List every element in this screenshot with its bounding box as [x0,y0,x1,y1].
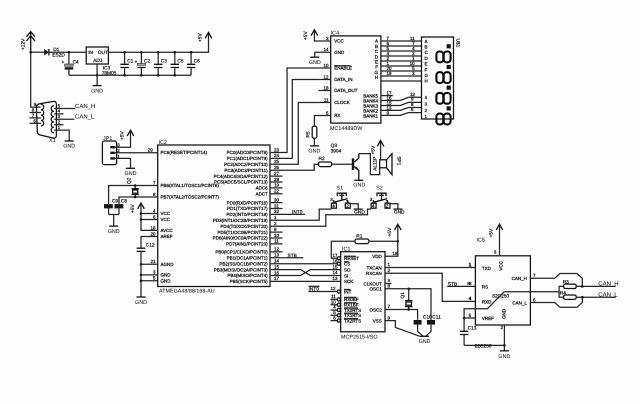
svg-text:RX: RX [334,113,340,118]
svg-text:GND: GND [63,144,75,150]
IC1 left pin names [344,256,361,323]
svg-text:R3: R3 [563,279,569,285]
svg-text:PD0(RXD/PCINT16): PD0(RXD/PCINT16) [227,200,269,205]
svg-text:+5V: +5V [387,227,393,236]
svg-text:13: 13 [332,276,338,281]
svg-text:CAN_H: CAN_H [598,281,618,288]
IC2 right pin names [213,150,269,284]
svg-text:OSC2: OSC2 [370,307,383,312]
capacitor C2 (polarized) [135,52,151,75]
svg-text:18: 18 [323,85,329,90]
IC1 pin bubbles [337,257,340,323]
wire PB7 XTAL2 [119,197,158,204]
junction crystal bottom [134,196,137,199]
svg-text:12: 12 [330,286,336,291]
svg-text:ATMEGA48/88/168-AU: ATMEGA48/88/168-AU [159,289,215,295]
X1 left pin arcs [41,104,44,126]
display digit group 2 [436,65,450,83]
svg-text:PC5(ADC5/SCL/PCINT13): PC5(ADC5/SCL/PCINT13) [214,180,268,185]
svg-text:10: 10 [274,233,280,238]
wire VREF to R3 R4 midpoint [464,292,559,318]
svg-text:DATA_OUT: DATA_OUT [334,88,358,93]
svg-text:ENABLE: ENABLE [334,66,352,71]
svg-text:CAN_L: CAN_L [75,114,95,121]
display digit group 4 [436,106,450,124]
svg-text:C5: C5 [177,59,183,65]
ground below X1 pin1 [63,141,75,150]
display digit group 1 (8. rotated) [436,44,450,62]
+5V supply arrow IC4 [303,30,318,40]
wire segment 9th [381,80,422,82]
svg-text:+5V: +5V [120,131,126,140]
X1 pin 1 wire to ground [54,130,69,141]
capacitor C5 [171,52,184,75]
IC box IC5 [475,256,530,325]
ground below C8 C9 [108,226,120,235]
ground below JP1 [125,168,137,177]
svg-text:GND: GND [161,273,172,278]
svg-text:RXD: RXD [482,299,492,304]
segment wire pin numbers left [387,36,393,76]
svg-text:PC3(ADC3/PCINT11): PC3(ADC3/PCINT11) [224,168,268,173]
svg-text:C3: C3 [161,59,167,65]
svg-text:AREF: AREF [161,234,173,239]
svg-text:GND: GND [502,308,507,319]
IC4 left pin numbers [323,36,329,116]
wire PD3 to S1 [270,209,331,220]
ground below IC5 [498,351,510,360]
svg-text:F: F [425,67,428,72]
IC3 78M05 regulator [86,47,116,76]
ground below R5 [308,146,320,155]
svg-text:GND: GND [125,171,137,177]
wire PC3 to R2 [270,164,319,170]
junction ADJ / cap ground rail [96,74,99,77]
svg-text:TXCAN: TXCAN [367,265,382,270]
wire PC0 to IC4 ENABLE [270,68,319,153]
svg-text:Q1: Q1 [400,292,406,299]
wire PC2 to IC4 CLOCK [270,103,319,165]
svg-text:MC14489DW: MC14489DW [330,126,363,132]
IC2 left pin numbers [150,180,156,280]
wire CAN_H out [576,285,616,287]
wire JP1 pin1 to ground [115,158,131,168]
svg-text:+: + [135,59,138,64]
wire TXCAN to IC5 TXD [385,267,475,269]
svg-text:PB3(MOSI/OC2A/PCINT3): PB3(MOSI/OC2A/PCINT3) [214,267,268,272]
capacitor C12 [137,242,155,297]
wire +12V to X1 pin 9 [31,52,41,107]
svg-text:GND: GND [334,50,345,55]
JP1 pin 3 contact [110,146,115,148]
IC box IC1 [341,252,385,332]
JP1 pin 2 contact [110,152,115,154]
+5V supply arrow top [198,33,212,43]
X1 pin 8 stub [30,112,42,114]
X1 pin 7 stub [30,117,42,119]
svg-text:25: 25 [274,159,280,164]
capacitor C8 [115,199,128,215]
X1 pin 3 wire CAN_L [54,118,74,120]
display digit group 3 [436,86,450,104]
svg-text:C6: C6 [194,59,200,65]
wire CAN_L pin6 [530,297,582,307]
svg-text:C13: C13 [468,326,477,332]
IC1 left pin numbers [330,253,338,320]
svg-text:+5V: +5V [130,204,136,213]
svg-text:30: 30 [274,197,280,202]
svg-text:PD4(T0/XCK/PCINT20): PD4(T0/XCK/PCINT20) [220,224,268,229]
svg-text:28: 28 [274,177,280,182]
svg-text:32: 32 [274,209,280,214]
ground below IC2 [135,297,147,306]
IC1 right pin names [364,254,383,323]
svg-text:AVCC: AVCC [161,228,174,233]
svg-text:SP1: SP1 [395,156,401,165]
svg-text:CAN_L: CAN_L [512,300,527,305]
wire R1 to RESET [331,241,355,258]
wire CAN_L out [576,296,616,298]
resistor R1 [355,234,369,244]
wire PB2 to IC1 CS [270,263,337,265]
capacitor C11 [426,320,435,336]
svg-text:82C250: 82C250 [475,343,492,349]
+5V supply arrow JP1 [120,130,134,140]
svg-text:AGND: AGND [161,262,175,267]
IC2 left pin names [161,150,220,283]
svg-text:+5V: +5V [198,33,204,42]
svg-text:+5V: +5V [370,145,376,154]
svg-text:26: 26 [274,165,280,170]
wire AGND pin21 [141,263,158,265]
svg-text:GND: GND [498,354,510,360]
wire cap ground rail [69,74,191,76]
svg-text:SCK: SCK [344,279,353,284]
svg-text:PD7(AIN1/PCINT23): PD7(AIN1/PCINT23) [226,242,268,247]
wire IC4 GND [315,52,331,57]
svg-text:14: 14 [274,259,280,264]
resistor R2 [319,156,332,167]
svg-text:17: 17 [274,276,280,281]
svg-text:+5V: +5V [303,31,309,40]
IC5 left pin numbers [469,262,472,318]
ground below Q3 [353,180,365,188]
IC2 right pin numbers [274,147,280,281]
svg-text:14: 14 [323,47,329,52]
svg-text:OSC1: OSC1 [370,287,383,292]
ground below C10 C11 [419,336,431,345]
svg-text:PD6(AIN0/OC0A/PCINT22): PD6(AIN0/OC0A/PCINT22) [213,236,269,241]
svg-text:11: 11 [324,97,329,102]
svg-text:C1: C1 [127,59,133,65]
svg-text:PD1(TXD/PCINT17): PD1(TXD/PCINT17) [227,206,268,211]
wire PB6 XTAL1 [109,186,158,205]
wire AREF to C12 [141,237,158,248]
svg-text:PB4(MISO/PCINT4): PB4(MISO/PCINT4) [227,273,268,278]
svg-text:27: 27 [274,171,280,176]
ground IC4 [309,57,321,66]
svg-text:PD2(INT0/PCINT18): PD2(INT0/PCINT18) [226,212,268,217]
svg-text:14: 14 [332,270,338,275]
svg-text:B: B [425,45,428,50]
svg-text:GND: GND [308,149,320,155]
diode D1 ES2D [44,47,65,59]
ground below IC3 [91,86,103,95]
crystal Q2 [126,177,138,197]
svg-text:H: H [425,79,428,84]
connector JP1 body [102,141,116,165]
svg-text:SI: SI [344,273,348,278]
svg-text:13: 13 [274,253,280,258]
svg-text:12: 12 [274,247,280,252]
ground S2 [393,209,405,215]
svg-text:C8: C8 [121,199,127,205]
wire +12V rail [31,51,45,53]
svg-text:S2: S2 [376,185,383,191]
ground S1 [354,209,366,215]
wire PD1 stub [270,213,305,215]
wire VCC pin4 [141,213,158,215]
IC4 DATA_OUT stub [319,90,331,92]
X1 right pin arcs [51,106,54,133]
junction +12V node [29,51,32,54]
wire OSC1 [385,289,431,320]
svg-text:RXCAN: RXCAN [366,271,382,276]
wire PB5 SCK to IC1 SCK [270,280,341,282]
svg-text:22: 22 [274,189,280,194]
wire PB3 MOSI to IC1 SI (crossover) [270,270,341,276]
svg-text:CAN_H: CAN_H [75,103,95,110]
svg-text:3904: 3904 [331,148,342,154]
IC1 left stubs [331,299,338,320]
crystal Q1 [400,289,413,310]
capacitor C9 [104,199,118,215]
svg-text:JP1: JP1 [103,136,112,142]
svg-text:29: 29 [148,148,154,153]
wire BANK5 stub [381,95,393,97]
capacitor C4 (polarized) [62,52,80,75]
svg-text:GND: GND [394,209,405,215]
svg-text:BANK1: BANK1 [363,113,378,118]
svg-text:TXD: TXD [482,266,492,271]
IC1 CLKOUT stub [385,283,392,285]
svg-text:ADJ: ADJ [93,58,103,64]
svg-text:+: + [62,60,65,65]
svg-text:INT0: INT0 [292,209,303,215]
IC4 left pin names [334,39,358,119]
segment wire pin numbers right [410,36,416,76]
svg-text:31: 31 [274,203,280,208]
junction dots cap rail [123,51,126,54]
svg-text:11: 11 [331,294,336,299]
display left pin names A-H [425,39,429,119]
svg-text:GND: GND [135,300,147,306]
svg-text:VSS: VSS [373,318,382,323]
svg-text:GND: GND [419,339,431,345]
svg-text:PC6(RESET/PCINT14): PC6(RESET/PCINT14) [161,150,208,155]
JP1 pin 1 contact [110,157,115,159]
svg-text:RS: RS [482,284,488,289]
svg-text:VREF: VREF [482,316,494,321]
wire JP1 pin3 to +5V [115,130,131,147]
X1 pin 6 stub [30,122,42,124]
svg-text:PB0(ICP1/CLKO/PCINT0): PB0(ICP1/CLKO/PCINT0) [215,250,268,255]
svg-text:G: G [425,73,429,78]
svg-text:ES2D: ES2D [52,53,65,59]
+5V supply arrow IC5 [488,224,502,256]
svg-text:12: 12 [323,74,329,79]
svg-text:10: 10 [331,299,337,304]
+5V supply arrow VCC [130,203,158,230]
svg-text:21: 21 [150,259,156,264]
svg-text:IN: IN [88,50,93,56]
svg-text:24: 24 [274,153,280,158]
wire BANK1 to display pin6 [381,113,422,116]
svg-text:+12V: +12V [21,38,27,50]
svg-text:10: 10 [323,63,329,68]
svg-text:+5V: +5V [488,228,494,237]
svg-text:18: 18 [150,225,156,230]
svg-text:C9: C9 [112,199,118,205]
svg-text:11: 11 [274,239,279,244]
IC box IC4 [331,36,381,123]
svg-text:GND: GND [108,229,120,235]
svg-text:PD3(INT1/OC2B/PCINT19): PD3(INT1/OC2B/PCINT19) [213,218,268,223]
svg-text:INT0: INT0 [309,287,320,293]
resistor R3 [563,279,576,288]
segment wires A-H to display [381,40,422,42]
svg-text:Q3: Q3 [331,143,338,149]
wire BANK4 to display pin12 [381,97,422,100]
wire IC5 GND pin2 [503,325,505,351]
svg-text:R2: R2 [319,156,325,162]
svg-text:GND: GND [353,183,365,189]
svg-text:16: 16 [332,258,338,263]
svg-text:VCC: VCC [499,260,504,270]
capacitor C10 [414,320,424,336]
IC4 right pin names A-H [363,39,379,119]
svg-text:VCC: VCC [161,217,171,222]
wire VSS to ground [385,321,420,337]
svg-text:15: 15 [274,264,280,269]
svg-text:GND: GND [91,88,103,94]
svg-text:PD5(T1/OC0B/PCINT21): PD5(T1/OC0B/PCINT21) [217,230,268,235]
svg-text:C4: C4 [73,59,79,65]
wire BANK2 to display pin8 [381,108,422,111]
IC4 ENABLE DATA_IN CLOCK stubs [319,68,331,103]
svg-text:Q2: Q2 [126,177,132,184]
capacitor C6 [187,52,200,75]
wire STB to IC5 RS [447,285,475,287]
wire CAN_H pin7 [530,274,582,287]
svg-text:19: 19 [387,71,393,76]
svg-text:PB6(XTAL1/TOSC1/PCINT6): PB6(XTAL1/TOSC1/PCINT6) [161,183,220,188]
wire PB4 MISO to IC1 SO (crossover) [270,270,341,276]
svg-text:CLKOUT: CLKOUT [364,281,383,286]
svg-text:E: E [425,62,428,67]
display box U$1 [422,37,454,119]
wire IC4 RX to R5 [314,116,330,127]
svg-text:GND: GND [354,209,365,215]
svg-text:OUT: OUT [98,50,108,56]
resistor R4 [560,291,576,300]
resistor R5 [306,126,317,146]
wire +5V rail top [108,33,208,53]
X1 pin 2 stub [54,124,63,126]
svg-text:ADC7: ADC7 [256,192,269,197]
svg-text:AL11P: AL11P [373,157,379,171]
svg-text:S1: S1 [337,185,344,191]
wire ADJ down [96,64,98,86]
svg-text:CLOCK: CLOCK [334,100,350,105]
svg-text:CAN_H: CAN_H [512,276,527,281]
svg-text:H: H [375,75,378,80]
svg-text:GND: GND [309,60,321,66]
svg-text:VCC: VCC [161,211,171,216]
svg-text:20: 20 [150,231,156,236]
svg-text:C11: C11 [432,315,441,321]
wire Q3 collector to speaker [359,154,380,175]
wire R1 to +5V / VDD [369,240,398,242]
svg-text:IC5: IC5 [477,238,485,244]
wire caps to ground [109,215,119,227]
wire OSC2 [385,310,418,320]
capacitor C13 [460,326,477,346]
switch S2 [370,185,398,209]
capacitor C3 [154,52,167,75]
svg-text:STB: STB [448,281,457,287]
svg-text:23: 23 [274,147,280,152]
IC1 right pin numbers [388,251,399,320]
svg-text:PC2(ADC2/PCINT10): PC2(ADC2/PCINT10) [224,162,268,167]
connector X1 body [36,101,56,138]
svg-text:PC4(ADC4/SDA/PCINT12): PC4(ADC4/SDA/PCINT12) [214,174,269,179]
switch S1 [330,185,358,209]
svg-text:16: 16 [274,270,280,275]
+12V supply arrow [21,32,36,53]
wire GND pin5 [141,280,158,282]
X1 pin 4 stub [54,113,63,115]
wire IC4 VCC +5V [314,29,318,41]
wire VCC pin6 [141,219,158,221]
svg-text:IC4: IC4 [331,31,339,37]
svg-text:PC0(ADC0/PCINT8): PC0(ADC0/PCINT8) [227,150,269,155]
svg-text:17: 17 [332,253,338,258]
svg-text:PC1(ADC1/PCINT9): PC1(ADC1/PCINT9) [227,156,269,161]
wire RXCAN to IC5 RXD [385,273,475,301]
svg-text:18: 18 [393,251,399,256]
wire GND pin3 [141,274,158,276]
wire JP1 pin2 to IC2 pin29 [115,152,158,154]
svg-text:IC1: IC1 [342,246,350,252]
svg-text:SO: SO [344,267,351,272]
X1 pin 5 wire CAN_H [54,108,75,110]
svg-text:U$1: U$1 [455,39,461,48]
wire PC1 to IC4 DATA_IN [270,80,319,159]
wire D1 to IC3 IN [49,51,86,53]
svg-text:PB7(XTAL2/TOSC2/PCINT7): PB7(XTAL2/TOSC2/PCINT7) [161,195,220,200]
IC1 overlines [344,256,358,318]
transistor Q3 3904 [331,143,359,180]
svg-text:19: 19 [274,183,280,188]
svg-text:X1: X1 [49,138,56,144]
svg-text:R5: R5 [306,131,312,137]
ground rail below IC5 [464,344,504,346]
svg-text:A: A [425,39,428,44]
svg-text:STB: STB [288,253,297,259]
wire BANK3 to display pin9 [381,102,422,105]
svg-text:PB1(OC1A/PCINT1): PB1(OC1A/PCINT1) [227,256,269,261]
